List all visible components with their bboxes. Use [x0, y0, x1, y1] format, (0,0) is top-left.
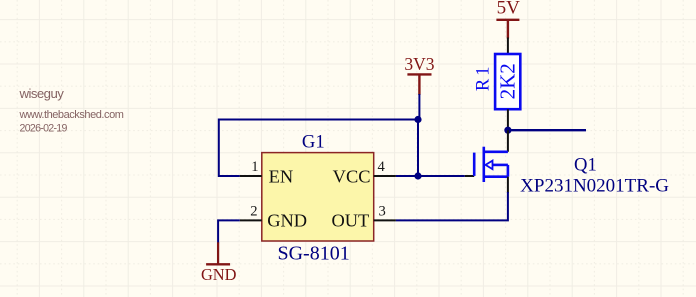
- power net 5V: [496, 20, 519, 39]
- pin 2 GND stub: [240, 219, 262, 221]
- wire 3V3 rail horizontal and down to EN: [219, 120, 418, 177]
- svg-text:VCC: VCC: [333, 166, 371, 186]
- svg-text:G1: G1: [302, 132, 325, 153]
- resistor R1 bottom pin: [507, 109, 509, 127]
- IC G1 body: [262, 153, 374, 241]
- svg-text:Q1: Q1: [574, 155, 597, 176]
- transistor Q1 source pin: [507, 177, 509, 193]
- svg-text:XP231N0201TR-G: XP231N0201TR-G: [520, 175, 669, 196]
- transistor Q1 drain pin: [507, 130, 509, 152]
- svg-text:1: 1: [251, 159, 258, 175]
- pin 3 OUT stub: [374, 219, 396, 221]
- svg-text:EN: EN: [269, 166, 294, 186]
- pin 4 VCC stub: [374, 175, 396, 177]
- svg-text:5V: 5V: [497, 0, 521, 18]
- power net 3V3: [407, 74, 431, 95]
- junction drain node: [504, 127, 511, 134]
- wire VCC junction to Q1 gate: [418, 175, 465, 177]
- svg-text:GND: GND: [201, 265, 237, 284]
- svg-text:3V3: 3V3: [404, 54, 434, 74]
- junction VCC node: [414, 172, 421, 179]
- svg-text:2K2: 2K2: [496, 63, 520, 99]
- wire GND pin to ground: [218, 220, 240, 243]
- pin 1 EN stub: [240, 175, 262, 177]
- wire drain node to open end: [508, 129, 586, 131]
- svg-text:OUT: OUT: [332, 211, 370, 231]
- junction 3V3 rail at vertical: [414, 116, 421, 123]
- svg-text:4: 4: [378, 159, 386, 175]
- wire source to OUT pin: [396, 192, 508, 220]
- svg-text:2026-02-19: 2026-02-19: [20, 123, 68, 135]
- wire VCC pin to junction: [396, 175, 418, 177]
- svg-text:www.thebackshed.com: www.thebackshed.com: [19, 109, 124, 121]
- svg-text:SG-8101: SG-8101: [277, 243, 349, 265]
- svg-text:R1: R1: [474, 64, 494, 92]
- resistor R1 body: [495, 54, 520, 109]
- wire 3V3 stub to rail: [418, 94, 420, 120]
- svg-text:GND: GND: [267, 211, 307, 231]
- transistor Q1 symbol: [474, 147, 508, 182]
- svg-text:wiseguy: wiseguy: [19, 86, 65, 101]
- svg-text:3: 3: [379, 203, 386, 219]
- svg-text:2: 2: [250, 203, 257, 219]
- resistor R1 top pin: [507, 38, 509, 55]
- transistor Q1 gate pin: [465, 175, 474, 177]
- wire 3V3 vertical down to VCC node: [417, 120, 419, 177]
- ground symbol GND: [206, 242, 230, 264]
